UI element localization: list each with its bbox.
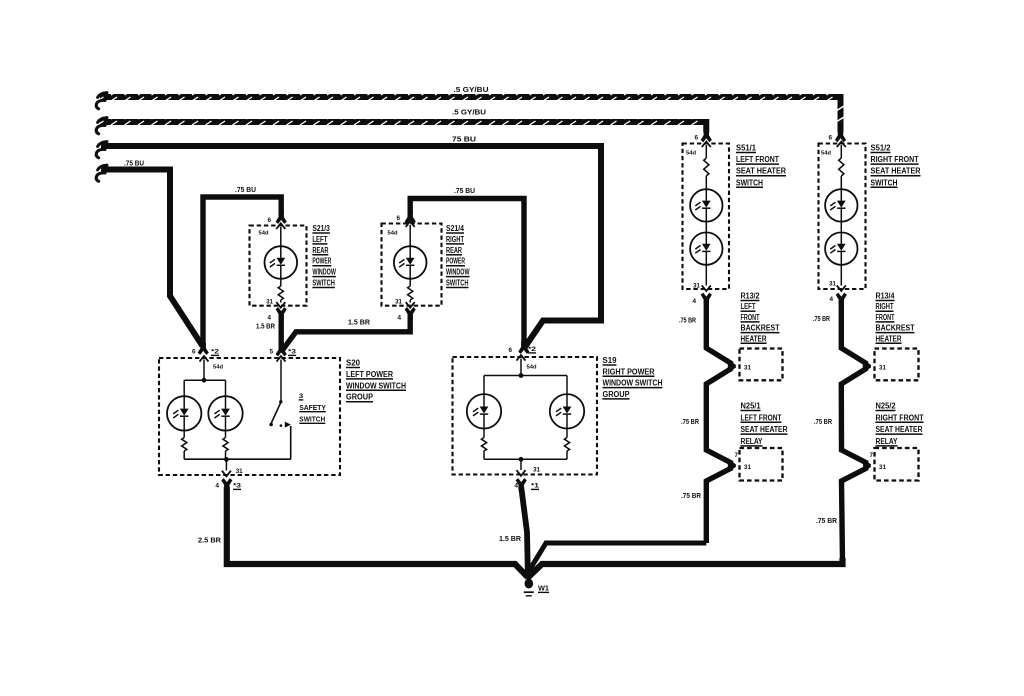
svg-text:SWITCH: SWITCH <box>736 178 763 187</box>
svg-text:W1: W1 <box>538 586 549 593</box>
svg-text:.75 BR: .75 BR <box>814 417 833 426</box>
svg-text:31: 31 <box>879 364 886 371</box>
svg-text:RIGHT: RIGHT <box>876 302 894 311</box>
svg-text:6: 6 <box>396 215 400 222</box>
svg-text:.75 BR: .75 BR <box>813 314 830 323</box>
svg-text:31: 31 <box>879 464 886 471</box>
svg-text:*3: *3 <box>288 350 297 356</box>
svg-text:54d: 54d <box>259 231 269 237</box>
svg-text:31: 31 <box>236 468 243 475</box>
svg-text:REAR: REAR <box>312 246 328 255</box>
svg-text:6: 6 <box>267 217 271 224</box>
svg-text:.75 BU: .75 BU <box>454 186 475 195</box>
svg-text:6: 6 <box>828 135 832 142</box>
svg-text:54d: 54d <box>821 151 831 157</box>
svg-text:4: 4 <box>692 298 696 305</box>
svg-text:SEAT HEATER: SEAT HEATER <box>741 425 788 434</box>
svg-text:*2: *2 <box>528 347 537 353</box>
svg-text:WINDOW SWITCH: WINDOW SWITCH <box>346 381 406 390</box>
svg-text:S21/4: S21/4 <box>446 224 465 233</box>
svg-text:4: 4 <box>829 296 833 303</box>
svg-text:*3: *3 <box>233 484 242 490</box>
svg-text:SWITCH: SWITCH <box>299 414 325 423</box>
svg-text:S51/1: S51/1 <box>736 144 757 153</box>
svg-text:31: 31 <box>266 299 273 306</box>
svg-text:WINDOW SWITCH: WINDOW SWITCH <box>603 379 663 388</box>
svg-text:7: 7 <box>735 452 739 459</box>
svg-text:.75 BU: .75 BU <box>124 159 144 168</box>
svg-text:.5 GY/BU: .5 GY/BU <box>454 85 489 94</box>
svg-text:N25/2: N25/2 <box>876 402 897 411</box>
svg-text:LEFT: LEFT <box>312 235 327 244</box>
svg-text:BACKREST: BACKREST <box>876 324 915 333</box>
svg-text:SAFETY: SAFETY <box>299 403 326 412</box>
svg-text:N25/1: N25/1 <box>741 402 762 411</box>
svg-text:R13/4: R13/4 <box>876 292 896 301</box>
svg-text:.75 BU: .75 BU <box>235 185 256 194</box>
svg-text:1.5 BR: 1.5 BR <box>499 534 522 543</box>
svg-text:31: 31 <box>533 467 540 474</box>
svg-text:FRONT: FRONT <box>741 313 760 322</box>
svg-text:S21/3: S21/3 <box>312 224 330 233</box>
svg-text:LEFT POWER: LEFT POWER <box>346 370 393 379</box>
svg-text:.75 BR: .75 BR <box>816 516 838 525</box>
svg-text:.75 BR: .75 BR <box>679 316 696 325</box>
svg-text:S20: S20 <box>346 359 361 368</box>
svg-text:S19: S19 <box>603 356 618 365</box>
svg-text:.5 GY/BU: .5 GY/BU <box>452 108 486 117</box>
svg-text:1.5 BR: 1.5 BR <box>256 322 276 331</box>
svg-text:SWITCH: SWITCH <box>871 178 898 187</box>
svg-text:SEAT HEATER: SEAT HEATER <box>736 167 786 176</box>
svg-text:6: 6 <box>508 347 512 354</box>
svg-text:SWITCH: SWITCH <box>446 279 469 288</box>
svg-text:5: 5 <box>269 349 273 356</box>
svg-text:4: 4 <box>215 483 219 490</box>
svg-text:GROUP: GROUP <box>603 390 631 399</box>
svg-text:31: 31 <box>693 283 700 290</box>
svg-text:31: 31 <box>744 464 751 471</box>
svg-text:54d: 54d <box>686 151 696 157</box>
svg-text:7: 7 <box>870 452 874 459</box>
svg-text:4: 4 <box>397 315 401 322</box>
svg-text:54d: 54d <box>213 365 223 371</box>
svg-text:RIGHT FRONT: RIGHT FRONT <box>871 155 919 164</box>
svg-text:RIGHT FRONT: RIGHT FRONT <box>876 413 924 422</box>
svg-text:54d: 54d <box>527 365 537 371</box>
svg-text:RIGHT: RIGHT <box>446 235 464 244</box>
svg-text:RELAY: RELAY <box>876 437 899 446</box>
svg-text:31: 31 <box>744 364 751 371</box>
svg-text:*2: *2 <box>211 350 220 356</box>
svg-text:HEATER: HEATER <box>741 334 767 343</box>
svg-text:BACKREST: BACKREST <box>741 324 780 333</box>
svg-text:4: 4 <box>267 315 271 322</box>
svg-text:6: 6 <box>192 349 196 356</box>
svg-text:WINDOW: WINDOW <box>446 268 470 277</box>
svg-text:FRONT: FRONT <box>876 313 895 322</box>
svg-text:75 BU: 75 BU <box>452 135 476 144</box>
svg-text:POWER: POWER <box>312 257 331 266</box>
svg-text:R13/2: R13/2 <box>741 292 761 301</box>
svg-text:.75 BR: .75 BR <box>681 491 702 500</box>
svg-text:GROUP: GROUP <box>346 393 374 402</box>
svg-text:POWER: POWER <box>446 257 465 266</box>
svg-text:RIGHT POWER: RIGHT POWER <box>603 367 655 376</box>
svg-text:WINDOW: WINDOW <box>312 268 336 277</box>
svg-text:54d: 54d <box>388 231 398 237</box>
svg-text:SWITCH: SWITCH <box>312 279 335 288</box>
svg-text:SEAT HEATER: SEAT HEATER <box>871 167 921 176</box>
svg-text:HEATER: HEATER <box>876 334 902 343</box>
svg-text:2.5 BR: 2.5 BR <box>198 536 222 545</box>
svg-text:RELAY: RELAY <box>741 437 764 446</box>
svg-text:31: 31 <box>395 299 402 306</box>
svg-text:LEFT: LEFT <box>741 302 756 311</box>
svg-text:1.5 BR: 1.5 BR <box>348 318 371 327</box>
svg-text:6: 6 <box>694 135 698 142</box>
svg-text:*1: *1 <box>531 484 540 490</box>
svg-text:S51/2: S51/2 <box>871 144 892 153</box>
svg-text:31: 31 <box>829 281 836 288</box>
svg-text:LEFT FRONT: LEFT FRONT <box>736 155 779 164</box>
svg-text:SEAT HEATER: SEAT HEATER <box>876 425 923 434</box>
svg-text:REAR: REAR <box>446 246 462 255</box>
svg-text:.75 BR: .75 BR <box>681 417 700 426</box>
svg-text:LEFT FRONT: LEFT FRONT <box>741 413 782 422</box>
